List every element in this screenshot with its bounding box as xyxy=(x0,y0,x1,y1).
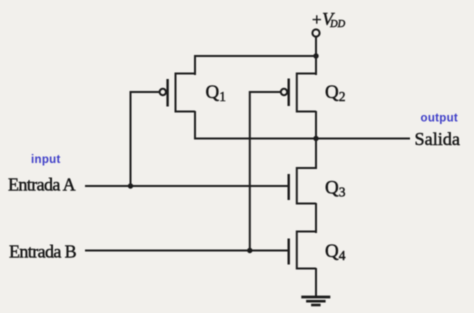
node VDD rail junction xyxy=(313,53,318,58)
transistor Q1 (PMOS) xyxy=(131,74,196,112)
label Salida xyxy=(415,129,460,149)
wire Q2 source to rail xyxy=(315,55,317,75)
label Entrada B xyxy=(9,241,77,261)
label Q1 xyxy=(206,82,226,104)
wire Q4 source down to ground xyxy=(315,268,317,297)
node output junction xyxy=(313,136,318,141)
wire Entrada A junction up to Q1 gate xyxy=(130,91,132,186)
wire Entrada A to Q3 gate xyxy=(85,185,289,187)
label Q4 xyxy=(325,241,346,263)
label Q3 xyxy=(325,178,346,200)
svg-text:Salida: Salida xyxy=(415,129,460,149)
wire VDD rail xyxy=(195,55,316,57)
wire VDD terminal to rail xyxy=(315,37,317,56)
label Q2 xyxy=(325,82,345,104)
wire Q2 drain down to output node xyxy=(315,111,317,139)
wire Q1 drain down to output line xyxy=(194,111,196,140)
wire Q3 source to Q4 drain xyxy=(315,203,317,233)
node Entrada A junction xyxy=(128,183,133,188)
label output xyxy=(421,113,459,125)
wire Entrada B junction up to Q2 gate xyxy=(249,91,251,251)
node Entrada B junction xyxy=(247,248,252,253)
wire Q1 source to rail xyxy=(194,55,196,75)
transistor Q3 (NMOS) xyxy=(289,168,316,204)
transistor Q2 (PMOS) xyxy=(250,74,316,112)
wire Entrada B to Q4 gate xyxy=(85,250,289,252)
label input xyxy=(31,154,61,166)
transistor Q4 (NMOS) xyxy=(289,232,316,269)
label Entrada A xyxy=(8,175,76,195)
svg-text:input: input xyxy=(31,154,61,166)
svg-text:Entrada B: Entrada B xyxy=(9,241,77,261)
svg-text:Entrada A: Entrada A xyxy=(8,175,76,195)
ground xyxy=(301,297,330,305)
wire output line xyxy=(194,138,410,140)
svg-text:output: output xyxy=(421,113,459,125)
VDD terminal circle xyxy=(312,29,319,36)
label +VDD xyxy=(312,9,346,30)
wire output node down to Q3 drain xyxy=(315,139,317,170)
